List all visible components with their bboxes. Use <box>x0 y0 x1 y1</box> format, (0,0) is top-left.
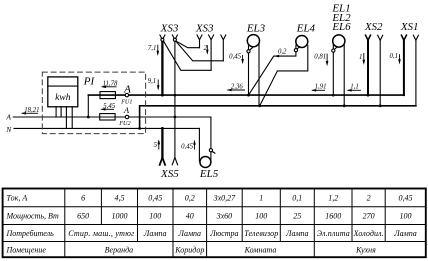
svg-text:9,1: 9,1 <box>148 78 157 85</box>
current arrow 1,91 <box>312 89 325 91</box>
svg-text:A: A <box>123 84 131 96</box>
svg-text:25: 25 <box>293 212 301 221</box>
junction XS3-1 left stem on phase bus <box>161 94 164 97</box>
svg-text:Лампа: Лампа <box>285 229 309 238</box>
junction EL3/EL4 right leads on lower bus <box>258 104 261 107</box>
lamp EL4 left lead with cord to top bus <box>249 45 296 95</box>
wire cord C2: XS3-1 right plug to third fork <box>176 42 223 61</box>
wire XS2 right stem <box>379 40 381 106</box>
wire cord C3: XS3-1 left plug to XS3-2 right <box>164 41 211 70</box>
wire XS2 left stem <box>367 40 369 95</box>
current arrow 11,78 <box>102 86 117 88</box>
svg-text:PI: PI <box>83 76 96 88</box>
socket XS5 fork left (down) <box>160 158 165 165</box>
svg-text:100: 100 <box>149 212 161 221</box>
wire cord C1: XS3-1 right plug to XS3-2 left <box>176 41 199 48</box>
svg-text:Лампа: Лампа <box>143 229 167 238</box>
svg-text:Эл.плита: Эл.плита <box>317 229 350 238</box>
svg-text:270: 270 <box>363 212 375 221</box>
socket XS3-2 fork left + stem <box>197 35 202 48</box>
svg-text:18,21: 18,21 <box>24 107 39 114</box>
switch on EL4 <box>297 47 300 49</box>
current arrow 2,36 <box>228 89 245 91</box>
current arrow 7 <box>206 45 208 53</box>
table column lines row 4 <box>65 242 314 258</box>
socket XS2 fork left <box>366 35 371 40</box>
svg-text:Мощность, Вт: Мощность, Вт <box>6 212 60 221</box>
svg-text:0,1: 0,1 <box>292 193 302 202</box>
svg-text:6: 6 <box>81 193 85 202</box>
svg-text:Стир. маш., утюг: Стир. маш., утюг <box>68 229 134 238</box>
lamp EL1/EL2/EL6 left lead <box>332 44 334 95</box>
svg-text:Люстра: Люстра <box>209 229 238 238</box>
svg-text:2: 2 <box>204 45 208 52</box>
wire XS3-1 right stem / XS5 right stem <box>174 41 176 158</box>
svg-text:Коридор: Коридор <box>174 246 204 255</box>
svg-text:EL4: EL4 <box>296 22 316 34</box>
table row lines <box>3 207 426 242</box>
wire lower neutral bus <box>140 106 416 129</box>
junction at FU1/FU2 feed split <box>87 116 90 119</box>
svg-text:EL5: EL5 <box>199 168 219 180</box>
node N (neutral input) wire <box>14 127 199 129</box>
wire meter stub N-out <box>71 107 73 129</box>
junction XS2 left stem on phase bus <box>367 94 370 97</box>
socket fork (third, right of XS3-2) + stem <box>221 35 226 61</box>
svg-text:XS3: XS3 <box>195 22 214 34</box>
wire XS3-1 left stem <box>161 41 163 95</box>
socket XS2 fork right <box>378 35 383 40</box>
svg-text:5,45: 5,45 <box>103 103 115 110</box>
ammeter point circle at FU2 <box>125 115 128 118</box>
svg-text:1: 1 <box>259 193 263 202</box>
current arrow 6,45 (EL5) <box>194 141 196 149</box>
svg-text:100: 100 <box>255 212 267 221</box>
switch on EL5 <box>212 151 215 153</box>
junction neutral to lower bus <box>138 127 141 130</box>
wire meter stub N-in <box>65 107 67 129</box>
svg-text:Потребитель: Потребитель <box>6 229 55 238</box>
svg-text:100: 100 <box>400 212 412 221</box>
lamp EL1/EL2/EL6 right lead <box>343 44 345 106</box>
socket XS3-1 fork right <box>172 35 177 40</box>
svg-text:XS1: XS1 <box>400 21 419 33</box>
svg-text:A: A <box>5 112 11 121</box>
meter kwh box <box>48 77 78 107</box>
lamp EL3 left lead <box>248 44 250 95</box>
svg-text:2: 2 <box>367 193 371 202</box>
svg-text:1: 1 <box>359 54 362 61</box>
svg-text:N: N <box>5 125 12 134</box>
svg-text:4,5: 4,5 <box>115 193 125 202</box>
junction EL6 right lead on lower bus <box>343 104 346 107</box>
lamp EL3 right lead <box>258 44 260 106</box>
node A (phase input) wire <box>13 116 211 118</box>
socket XS1 fork right <box>413 35 418 40</box>
socket XS3-2 fork right + stem <box>209 35 214 70</box>
svg-text:kwh: kwh <box>55 93 71 103</box>
current arrow 9,2 <box>157 80 159 89</box>
table <box>3 189 426 258</box>
svg-text:Лампа: Лампа <box>393 229 417 238</box>
svg-text:Кухня: Кухня <box>355 246 376 255</box>
current arrow 5,45 <box>102 108 115 110</box>
svg-text:1,2: 1,2 <box>328 193 338 202</box>
svg-text:XS2: XS2 <box>364 21 383 33</box>
socket XS3-1 fork left <box>160 35 165 40</box>
svg-text:EL6: EL6 <box>331 21 351 33</box>
socket XS1 fork left <box>401 35 406 40</box>
junction XS3-1 right stem on phase bus <box>174 94 177 97</box>
ammeter point circle at FU1 <box>125 93 128 96</box>
current arrow 5 (XS5) <box>158 141 160 150</box>
current arrow 0,45 (EL3) <box>242 55 244 62</box>
svg-text:Веранда: Веранда <box>105 246 133 255</box>
junction XS5 right stem on FU2 wire <box>174 116 177 119</box>
svg-text:0,45: 0,45 <box>399 193 413 202</box>
fuse FU1 <box>100 92 115 99</box>
current arrow 0,2 (EL4) <box>274 55 279 58</box>
svg-text:Комната: Комната <box>244 246 277 255</box>
svg-text:0,2: 0,2 <box>185 193 195 202</box>
socket XS5 fork right (down) <box>172 158 177 165</box>
svg-text:650: 650 <box>77 212 89 221</box>
svg-text:1600: 1600 <box>325 212 341 221</box>
table outer border <box>3 189 426 258</box>
wire XS5 left stem <box>161 128 163 157</box>
svg-text:11,78: 11,78 <box>103 80 118 87</box>
wire: FU2 output down to EL5 switch <box>210 117 212 161</box>
junction XS2 right stem on lower bus <box>379 104 382 107</box>
svg-text:1,91: 1,91 <box>315 84 327 91</box>
svg-text:XS3: XS3 <box>160 22 179 34</box>
current arrow 1,1 <box>348 89 361 91</box>
switch on EL6 <box>334 47 337 49</box>
current arrow 0,1 (XS1) <box>399 54 401 63</box>
svg-text:FU1: FU1 <box>120 98 132 105</box>
svg-text:0,45: 0,45 <box>229 54 241 61</box>
plug pin circle on XS3-1 right <box>173 38 176 41</box>
table column lines rows 1-3 <box>65 189 385 242</box>
svg-text:3х0,27: 3х0,27 <box>213 193 237 202</box>
lamp EL4 bulb <box>296 36 308 48</box>
wire top phase bus (FU1 line) <box>88 94 404 96</box>
svg-text:3х60: 3х60 <box>216 212 233 221</box>
svg-text:FU2: FU2 <box>118 120 130 127</box>
junction EL3/EL4 left leads on phase bus <box>247 94 250 97</box>
current arrow 18,21 <box>22 112 38 114</box>
junction EL6 left lead on phase bus <box>332 94 335 97</box>
wire meter stub A-out <box>60 107 62 117</box>
svg-text:0,45: 0,45 <box>148 193 162 202</box>
svg-text:0,1: 0,1 <box>390 53 399 60</box>
wire meter stub A-in <box>55 107 57 117</box>
svg-text:EL3: EL3 <box>246 22 266 34</box>
svg-text:1000: 1000 <box>112 212 128 221</box>
svg-text:1,1: 1,1 <box>350 84 359 91</box>
svg-text:0,81: 0,81 <box>314 53 326 60</box>
svg-text:40: 40 <box>186 212 194 221</box>
svg-text:5: 5 <box>154 142 158 149</box>
wire riser to FU1 <box>87 95 89 117</box>
lamp EL4 right lead with cord to lower bus <box>260 45 308 106</box>
wire XS1 left stem <box>403 40 405 95</box>
fuse FU2 <box>100 114 115 120</box>
wire XS1 right stem <box>415 40 417 106</box>
junction XS5 left stem on neutral <box>161 127 164 130</box>
current arrow 6,8 (EL6) <box>326 54 328 65</box>
svg-text:Холодил.: Холодил. <box>353 229 384 238</box>
switch on EL3 <box>250 48 253 50</box>
current arrow 1 (XS2) <box>363 53 365 63</box>
lamp EL1/EL2/EL6 bulb <box>333 35 345 47</box>
svg-text:2,36: 2,36 <box>231 84 243 91</box>
svg-text:XS5: XS5 <box>160 168 179 180</box>
lamp EL3 bulb <box>247 35 259 47</box>
table column line 101.4 (rows 1-2 only) <box>100 189 102 225</box>
svg-text:7,1: 7,1 <box>148 45 157 52</box>
lamp EL5 bulb <box>200 157 211 168</box>
current arrow 7,1 <box>157 45 159 55</box>
svg-text:0,2: 0,2 <box>278 49 287 56</box>
plug pin circle on XS3-1 left <box>161 38 164 41</box>
svg-text:Помещение: Помещение <box>6 246 47 255</box>
svg-text:A: A <box>123 105 130 115</box>
svg-text:Ток, А: Ток, А <box>7 193 28 202</box>
svg-text:0,45: 0,45 <box>181 143 193 150</box>
meter PI dashed box <box>42 72 145 134</box>
svg-text:Телевизор: Телевизор <box>244 229 278 238</box>
svg-text:Лампа: Лампа <box>178 229 202 238</box>
wire: neutral down to EL5 left lead <box>198 128 200 161</box>
